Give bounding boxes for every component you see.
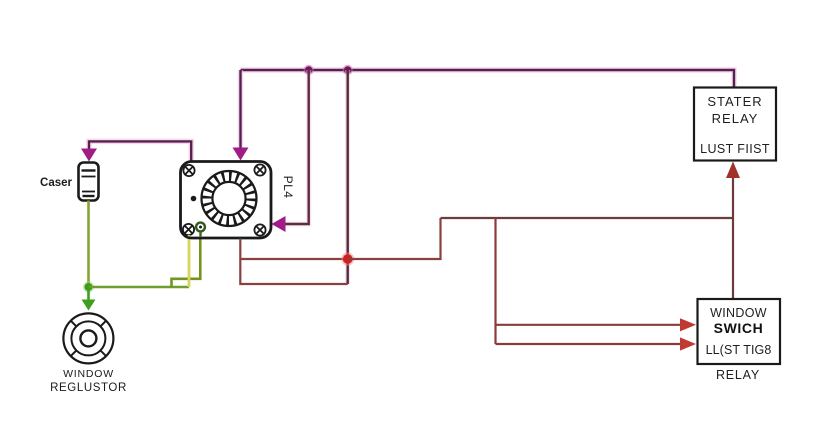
wire stub yellow under screw bbox=[188, 235, 191, 236]
svg-text:LL(ST TIG8: LL(ST TIG8 bbox=[706, 343, 772, 357]
component caser (fuse) bbox=[79, 163, 99, 201]
wire green from caser down to junction bbox=[87, 201, 90, 288]
wire top purple bus to stater relay bbox=[241, 70, 735, 87]
spokes bbox=[71, 321, 106, 356]
wire red down to window swich top bbox=[732, 218, 734, 299]
component window swich box bbox=[698, 299, 781, 364]
node red junction dot bbox=[341, 253, 354, 266]
svg-text:RELAY: RELAY bbox=[716, 368, 760, 382]
component stater relay box bbox=[694, 88, 776, 161]
terminal green bbox=[196, 223, 205, 232]
wire yellow fan lead bbox=[188, 231, 191, 287]
svg-text:LUST FIIST: LUST FIIST bbox=[700, 142, 770, 156]
screw top-left bbox=[183, 165, 194, 176]
arrow red into window swich pin1 bbox=[680, 318, 696, 331]
svg-text:SWICH: SWICH bbox=[714, 320, 764, 336]
wire red loop under fan bbox=[240, 239, 347, 285]
wire red drop to window swich arrows bbox=[496, 218, 684, 344]
pilot dot bbox=[191, 196, 197, 202]
screw bottom-right bbox=[254, 224, 265, 235]
svg-text:WINDOW: WINDOW bbox=[63, 368, 114, 380]
arrow purple into caser top bbox=[81, 149, 97, 162]
stator ring bbox=[202, 171, 257, 226]
wire green horizontal to fan leads bbox=[89, 286, 190, 289]
wire red up to stater relay bbox=[732, 176, 734, 218]
svg-text:Caser: Caser bbox=[40, 177, 72, 189]
arrow magenta into fan right bbox=[272, 216, 286, 232]
svg-text:WINDOW: WINDOW bbox=[710, 306, 767, 320]
wire red to right bus bbox=[348, 218, 441, 259]
arrow green into window regulator bbox=[87, 287, 90, 301]
svg-text:STATER: STATER bbox=[707, 94, 762, 109]
component window regulator bbox=[63, 313, 113, 363]
screw bottom-left bbox=[183, 224, 194, 235]
screw top-right bbox=[254, 164, 265, 175]
arrow red into stater relay bottom bbox=[726, 162, 740, 179]
node junction dot 1 on bus bbox=[304, 65, 314, 75]
wire olive fan lead elbow bbox=[172, 231, 201, 287]
arrow purple into fan top bbox=[233, 148, 249, 161]
arrow red into window swich pin2 bbox=[680, 337, 696, 350]
wire stub green terminal bbox=[199, 232, 201, 237]
wire purple drop to fan top bbox=[238, 70, 244, 149]
svg-text:PL4: PL4 bbox=[281, 176, 295, 199]
svg-text:RELAY: RELAY bbox=[712, 111, 759, 126]
node junction dot 2 on bus bbox=[343, 65, 353, 75]
node green junction dot bbox=[83, 281, 94, 292]
wire maroon drop to fan right pin bbox=[283, 70, 309, 224]
wire purple feed from fan to caser bbox=[89, 141, 191, 161]
component fan motor PL4 bbox=[181, 162, 296, 239]
wire maroon vertical to lower red net bbox=[345, 70, 350, 284]
svg-text:REGLUSTOR: REGLUSTOR bbox=[50, 382, 127, 394]
